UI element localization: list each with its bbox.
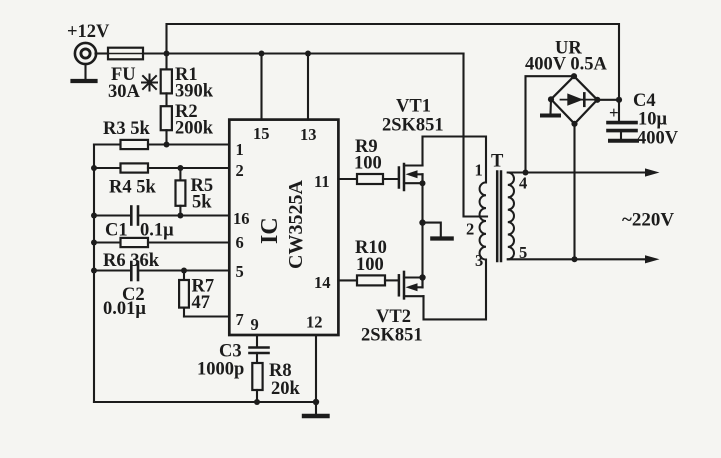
svg-text:15: 15 (253, 124, 270, 143)
wire connector to fuse (96, 52, 109, 54)
wire top rail (167, 24, 620, 100)
wire node to VT2 source (421, 223, 423, 278)
svg-text:7: 7 (236, 310, 244, 329)
svg-text:R4 5k: R4 5k (109, 178, 156, 198)
ground (bridge minus) (549, 99, 552, 113)
wire pin 13 (307, 54, 309, 120)
svg-text:3: 3 (475, 251, 483, 270)
svg-text:VT2: VT2 (376, 307, 411, 327)
resistor R7 (181, 268, 187, 274)
svg-text:R3 5k: R3 5k (103, 119, 150, 139)
svg-text:2: 2 (466, 220, 474, 239)
wire bridge AC2 down to tap5 line (573, 124, 575, 259)
wire center tap feed (464, 54, 488, 217)
svg-text:1000p: 1000p (197, 360, 244, 380)
wire output top (tap 4) (508, 171, 647, 173)
svg-text:6: 6 (236, 233, 244, 252)
svg-text:20k: 20k (271, 379, 301, 399)
svg-text:2: 2 (236, 161, 244, 180)
svg-text:200k: 200k (175, 119, 214, 139)
capacitor C2 (pin 5 row) (94, 269, 131, 271)
svg-text:0.01μ: 0.01μ (103, 299, 146, 319)
capacitor C4 (618, 100, 620, 121)
junction fuse/R1 (164, 51, 170, 57)
junction R2 bottom / pin1 row (164, 142, 170, 148)
wire pin 9 (256, 335, 258, 347)
svg-text:CW3525A: CW3525A (285, 180, 307, 269)
svg-text:~220V: ~220V (622, 210, 674, 231)
svg-text:14: 14 (314, 273, 331, 292)
resistor R5 (177, 165, 183, 171)
svg-text:400V: 400V (637, 129, 679, 149)
note mark * (142, 75, 157, 91)
wire pin 12 (315, 335, 317, 402)
node common source (419, 219, 425, 225)
svg-text:47: 47 (192, 293, 211, 313)
resistor R8 (252, 363, 262, 390)
svg-text:16: 16 (233, 209, 250, 228)
svg-text:2SK851: 2SK851 (361, 326, 423, 346)
resistor R9 (pin 11) (338, 178, 357, 180)
wire VT1 drain to tap 1 (423, 137, 487, 183)
svg-text:100: 100 (356, 255, 384, 275)
transformer T secondary (508, 173, 514, 260)
left bus wire (93, 145, 95, 403)
svg-text:+: + (609, 103, 619, 122)
svg-text:11: 11 (314, 172, 330, 191)
ground (sources) (423, 223, 441, 237)
svg-text:C4: C4 (633, 91, 656, 111)
transformer T primary (480, 182, 486, 259)
svg-text:10μ: 10μ (638, 110, 668, 130)
bridge rectifier UR (551, 76, 597, 124)
svg-text:+12V: +12V (67, 22, 110, 42)
wire +12V feed (fuse to center-tap drop) (143, 52, 464, 54)
resistor R10 (pin 14) (338, 279, 357, 281)
svg-text:1: 1 (475, 161, 483, 180)
svg-text:4: 4 (519, 174, 527, 193)
resistor R1 (165, 54, 167, 70)
svg-text:IC: IC (257, 217, 283, 244)
connector J1 (75, 43, 96, 64)
resistor R4 (pin 2 row) (94, 167, 121, 169)
capacitor C1 (pin 16 row) (94, 214, 131, 216)
op IC U1 CW3525A body (229, 120, 338, 335)
transformer core (496, 172, 499, 262)
wire bridge AC1 to tap4 line (526, 76, 575, 172)
resistor R6 (pin 6 row) (94, 241, 121, 243)
svg-text:30A: 30A (108, 82, 141, 102)
svg-text:13: 13 (300, 125, 317, 144)
transistor Q2 VT2 (398, 275, 401, 295)
svg-text:1: 1 (236, 140, 244, 159)
svg-text:C3: C3 (219, 342, 242, 362)
svg-text:T: T (491, 152, 504, 172)
svg-text:VT1: VT1 (396, 97, 431, 117)
svg-text:9: 9 (251, 315, 259, 334)
wire bottom rail (94, 401, 316, 403)
svg-text:2SK851: 2SK851 (382, 116, 444, 136)
wire VT2 drain to tap 3 (424, 260, 487, 320)
svg-text:R8: R8 (269, 361, 292, 381)
transistor Q1 VT1 (398, 168, 401, 188)
ground (under connector) (84, 64, 86, 79)
svg-text:390k: 390k (175, 82, 214, 102)
wire bridge plus to C4 (597, 99, 619, 101)
fuse FU (108, 48, 143, 60)
svg-text:100: 100 (354, 154, 382, 174)
wire pin 7 row (184, 315, 229, 317)
svg-text:12: 12 (306, 313, 323, 332)
capacitor C3 (250, 346, 269, 349)
svg-text:5k: 5k (192, 193, 212, 213)
svg-text:5: 5 (236, 262, 244, 281)
svg-text:400V 0.5A: 400V 0.5A (525, 55, 608, 75)
wire VT1 source down (421, 183, 423, 222)
ground (pin 12) (315, 402, 317, 414)
wire output bottom (tap 5) (508, 258, 647, 260)
resistor R2 (165, 93, 167, 106)
wire pin 15 (260, 54, 262, 120)
